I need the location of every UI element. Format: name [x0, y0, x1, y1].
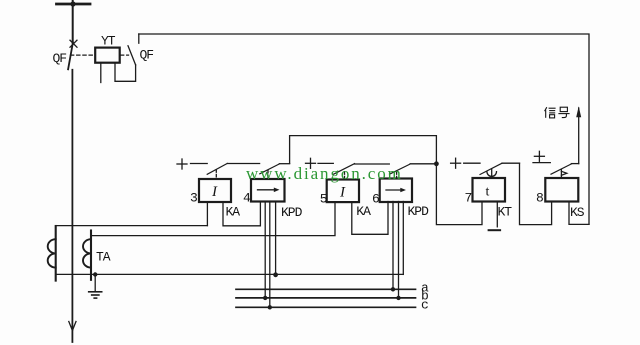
- wire (KPD4 contact out lead): [279, 163, 289, 165]
- svg-text:3: 3: [190, 191, 197, 206]
- KPD4 arrow symbol: [258, 189, 276, 191]
- svg-text:KA: KA: [226, 205, 241, 220]
- wire (between KA3 and KPD4 contacts): [227, 163, 259, 165]
- wire (KA5 contact left lead): [318, 162, 333, 164]
- dashed link (KPD6 coil to contact): [396, 172, 398, 180]
- plus mark (group 2 supply): [306, 162, 316, 164]
- svg-text:KA: KA: [356, 204, 371, 219]
- dashed link QF to YT: [71, 54, 96, 56]
- wire (QF aux top lead): [138, 34, 140, 43]
- KA5 contact blade: [334, 164, 355, 175]
- svg-text:KPD: KPD: [281, 205, 303, 220]
- KT delay symbol cup: [487, 172, 497, 177]
- node (bus tap junction dot): [70, 1, 75, 6]
- svg-text:QF: QF: [140, 48, 154, 63]
- svg-text:TA: TA: [96, 250, 111, 265]
- svg-text:6: 6: [372, 191, 379, 206]
- wire (KPD6 contact out lead): [410, 163, 434, 165]
- dashed link (KPD4 coil to contact): [267, 171, 269, 179]
- KS contact flag stem: [560, 170, 562, 178]
- KPD6 contact blade: [390, 164, 411, 174]
- dashed link (KA3 coil to contact): [215, 170, 217, 179]
- wire (KS coil left terminal): [520, 163, 552, 224]
- signal arrowhead: [576, 106, 581, 117]
- plus mark (group 1 supply): [177, 163, 187, 165]
- svg-text:4: 4: [243, 191, 251, 206]
- QF aux contact blade: [128, 46, 136, 65]
- KPD4 contact blade: [260, 164, 280, 174]
- relay box 4 KPD direction relay: [251, 179, 285, 202]
- wire (KA3 left terminal down): [206, 202, 208, 226]
- wire (top trip wire to KS circuit): [139, 34, 589, 224]
- svg-text:KT: KT: [498, 205, 513, 220]
- svg-text:I: I: [339, 185, 346, 201]
- breaker QF x-mark: [70, 40, 77, 47]
- node (KPD4 on bus b): [263, 296, 267, 300]
- wire (KPD6 current return to neutral): [402, 202, 404, 275]
- wire (CT C secondary to KA5): [91, 202, 335, 236]
- current transformer TA phase A winding: [48, 239, 56, 267]
- wire (junction down to KT coil): [436, 164, 482, 225]
- current transformer TA phase C primary line: [90, 231, 92, 280]
- wire (KA3 contact left lead): [191, 163, 208, 165]
- plus mark (KS branch supply): [534, 155, 544, 157]
- voltage bus c: [236, 306, 416, 308]
- KT contact blade: [480, 163, 502, 174]
- wire (KPD4 current return to neutral): [275, 202, 277, 275]
- label xinhao signal characters: [545, 107, 570, 118]
- signal arrow shaft: [578, 108, 580, 164]
- wire (YT right terminal to QF aux bottom, U shape): [115, 63, 136, 82]
- breaker QF blade: [68, 43, 73, 70]
- svg-text:c: c: [421, 298, 428, 313]
- wire (KS right terminal to trip wire): [569, 202, 589, 225]
- feeder arrowhead: [69, 322, 73, 331]
- voltage bus b: [236, 297, 416, 299]
- voltage bus a: [236, 288, 416, 290]
- KPD6 arrow symbol: [386, 189, 402, 191]
- KS contact blade: [551, 164, 571, 174]
- wire (feeder upper segment): [72, 1, 74, 43]
- wire (KPD6 voltage terminal to bus b): [398, 202, 400, 298]
- wire (KS contact to signal line): [571, 163, 578, 165]
- wire (CT A secondary to KA3): [56, 225, 208, 227]
- svg-text:KS: KS: [570, 205, 585, 220]
- svg-text:KPD: KPD: [408, 204, 430, 219]
- svg-text:8: 8: [536, 191, 543, 206]
- wire (secondary neutral return): [56, 273, 404, 275]
- relay box 8 KS signal relay: [545, 178, 578, 202]
- wire (YT left terminal stub): [100, 63, 102, 83]
- dashed link YT to QF aux: [121, 54, 129, 56]
- svg-text:5: 5: [320, 191, 327, 206]
- relay box 7 KT time relay: [473, 178, 506, 202]
- node (KPD4 on bus c): [268, 305, 272, 309]
- node (KPD6 on bus b): [396, 296, 400, 300]
- svg-text:YT: YT: [101, 34, 116, 49]
- wire (KA3 right terminal to KPD4 current coil): [223, 202, 260, 226]
- wire (KPD4 voltage terminal to bus b): [264, 202, 266, 299]
- KA3 contact blade: [207, 163, 227, 174]
- wire (KT coil right terminal to minus): [496, 202, 498, 227]
- wire (KS contact left lead): [533, 162, 550, 164]
- wire (feeder lower segment): [71, 70, 73, 342]
- wire (KA5 right terminal to KPD6 current coil): [352, 202, 388, 235]
- svg-text:I: I: [211, 184, 218, 200]
- relay box 6 KPD direction relay: [380, 179, 412, 203]
- wire (KT contact out lead): [502, 162, 520, 164]
- busbar (top supply bus): [57, 3, 91, 6]
- wire (between KA5 and KPD6 contacts): [355, 163, 390, 165]
- plus mark (KT branch supply): [451, 162, 461, 164]
- relay box 5 KA current relay: [327, 180, 359, 203]
- svg-text:t: t: [486, 185, 490, 200]
- svg-text:7: 7: [465, 191, 472, 206]
- relay box 3 KA current relay: [199, 179, 231, 202]
- current transformer TA phase C winding: [83, 239, 91, 267]
- node (CT C neutral junction): [93, 272, 97, 276]
- svg-text:QF: QF: [53, 51, 67, 66]
- wire (KPD4 voltage terminal to bus c): [269, 202, 271, 308]
- ground symbol: [94, 275, 96, 292]
- wire (KPD6 voltage terminal to bus a): [392, 202, 394, 290]
- KS contact flag arrow: [561, 171, 566, 175]
- node (KPD6 on bus a): [391, 287, 395, 291]
- KT delay symbol stem: [491, 169, 493, 176]
- wire (KT contact left lead): [464, 162, 480, 164]
- current transformer TA phase A primary line: [55, 226, 57, 281]
- svg-text:www.diangon.com: www.diangon.com: [246, 164, 403, 183]
- trip coil YT box: [95, 48, 120, 63]
- wire (long link wire over relays): [290, 136, 437, 164]
- node (KPD4 return junction): [273, 272, 278, 277]
- dashed link (KA5 coil to contact): [344, 172, 346, 180]
- minus mark (negative supply): [489, 229, 501, 231]
- node (KPD outputs junction): [434, 161, 439, 166]
